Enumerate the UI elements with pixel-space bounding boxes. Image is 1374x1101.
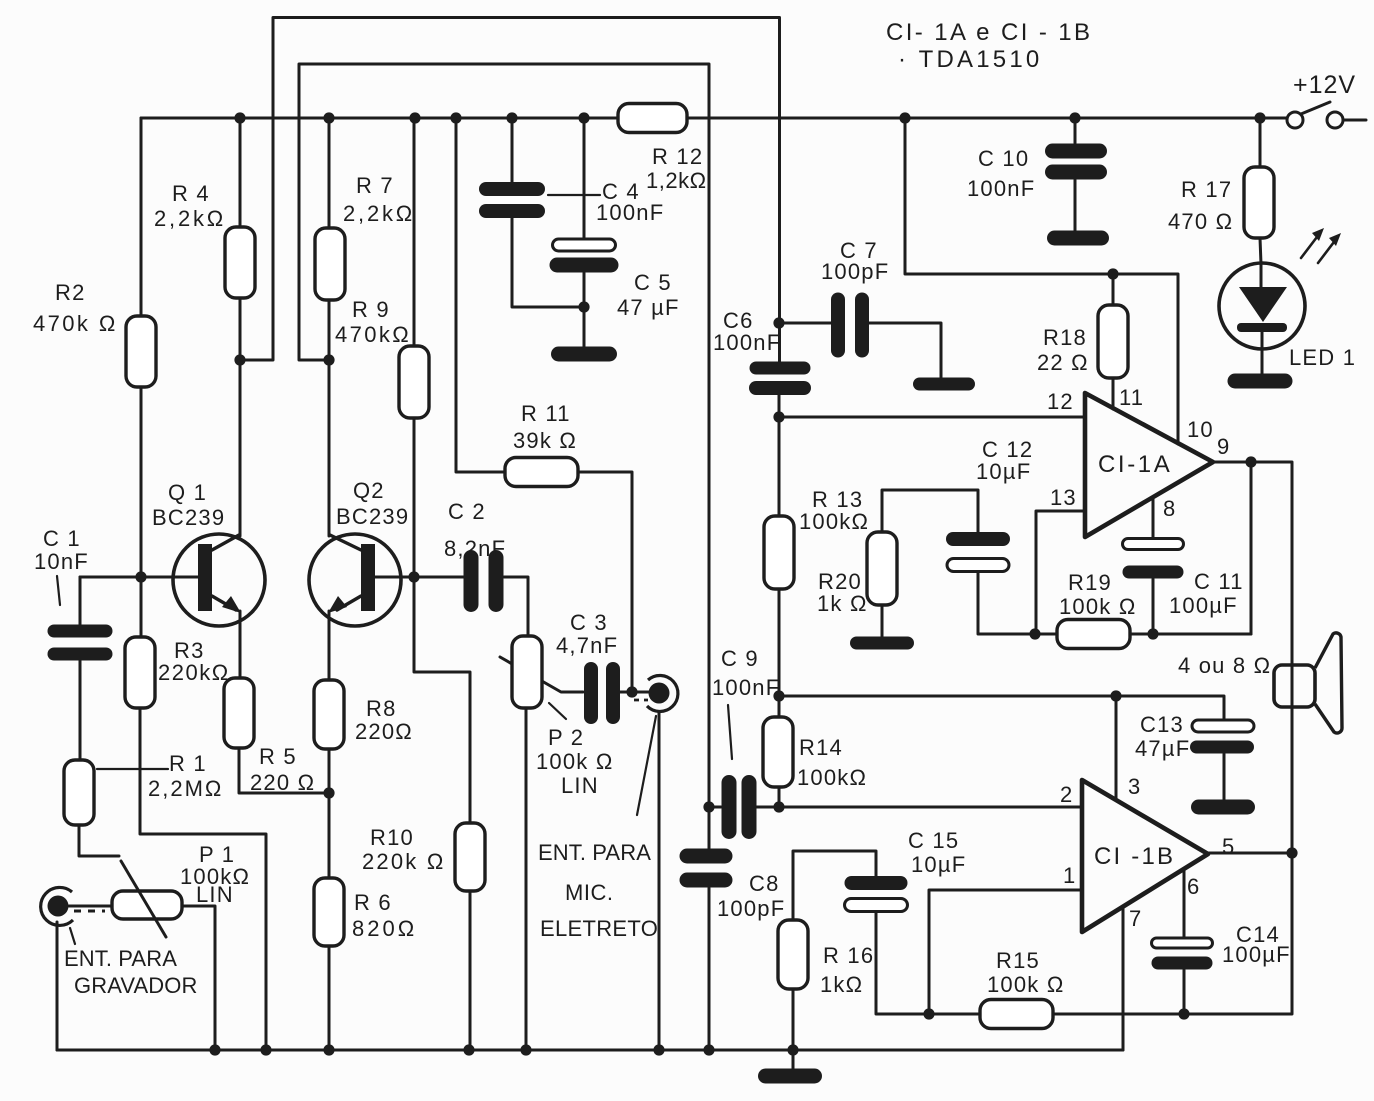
svg-text:220kΩ: 220kΩ — [158, 660, 230, 685]
wire node to C7 — [779, 322, 831, 325]
svg-text:R14: R14 — [799, 735, 843, 760]
svg-text:39k Ω: 39k Ω — [513, 428, 577, 453]
pin 10 — [1187, 417, 1214, 442]
svg-text:470k Ω: 470k Ω — [33, 311, 118, 336]
pin 6 — [1187, 874, 1200, 899]
pin 7 — [1129, 906, 1142, 931]
wire C12 bottom to node — [978, 572, 1035, 634]
svg-text:R 12: R 12 — [652, 144, 703, 169]
svg-text:R 17: R 17 — [1181, 177, 1232, 202]
svg-text:Q2: Q2 — [353, 478, 385, 503]
svg-text:ENT. PARA: ENT. PARA — [538, 840, 651, 865]
label R14 — [797, 735, 867, 790]
wire R9 top lead — [413, 118, 416, 346]
label pointer (C4) — [548, 194, 600, 196]
wire Q2 base to C2 — [414, 576, 464, 579]
wire node to ground symbol — [583, 307, 586, 348]
svg-text:C 9: C 9 — [721, 646, 759, 671]
wire Q2 collector lead — [328, 360, 331, 536]
resistor R13 — [764, 516, 794, 589]
svg-text:1k Ω: 1k Ω — [817, 591, 868, 616]
wire C4 bottom to node — [512, 218, 584, 307]
svg-text:C 2: C 2 — [448, 499, 486, 524]
resistor R8 — [314, 680, 344, 749]
wire C1 top lead — [79, 577, 82, 625]
capacitor C8 — [680, 849, 733, 888]
op-amp CI-1A — [1085, 393, 1213, 537]
label R7 — [343, 173, 415, 226]
wire C6 top segment — [778, 323, 781, 362]
wire P2 bottom to ground rail — [525, 708, 528, 1050]
wire R14 bottom to pin2 line — [778, 787, 781, 807]
svg-text:11: 11 — [1119, 385, 1144, 410]
label title CI-1A e CI-1B / TDA1510 — [886, 19, 1092, 73]
label R4 — [154, 181, 226, 231]
svg-text:12: 12 — [1047, 389, 1074, 414]
svg-text:100pF: 100pF — [717, 896, 785, 921]
svg-text:+12V: +12V — [1293, 71, 1356, 99]
wire C13 to ground symbol — [1223, 754, 1226, 800]
svg-text:P 2: P 2 — [548, 725, 584, 750]
wire R3 bottom to ground rail — [140, 708, 266, 1050]
wire Q1 base line with C1 top — [80, 576, 199, 579]
wire LED to ground symbol — [1261, 349, 1264, 375]
transistor Q1 — [173, 534, 265, 626]
svg-text:R 7: R 7 — [356, 173, 394, 198]
wire R18 bottom to pin 11 — [1112, 378, 1115, 409]
capacitor C1 — [48, 625, 113, 661]
wire pin 6 lead to C14 — [1183, 869, 1186, 938]
capacitor C6 — [749, 362, 811, 396]
jack ENT. PARA MIC. ELETRETO — [634, 675, 678, 711]
pin 2 — [1060, 782, 1073, 807]
wire R20-C12 top jog — [882, 490, 978, 532]
svg-text:C 10: C 10 — [978, 146, 1029, 171]
svg-text:C13: C13 — [1140, 712, 1184, 737]
resistor R18 — [1098, 305, 1128, 378]
svg-text:100k Ω: 100k Ω — [987, 972, 1064, 997]
potentiometer P1 — [112, 861, 182, 937]
svg-text:47µF: 47µF — [1135, 736, 1190, 761]
label R17 — [1168, 177, 1233, 234]
ground (C4/C5 node) — [551, 347, 617, 362]
resistor R15 — [980, 1000, 1053, 1029]
wire C11 bottom lead — [1152, 579, 1155, 634]
svg-text:8,2nF: 8,2nF — [444, 536, 506, 561]
svg-text:220Ω: 220Ω — [355, 719, 413, 744]
svg-text:47 µF: 47 µF — [617, 295, 680, 320]
wire C10 top lead — [1074, 118, 1077, 143]
label C9 — [712, 646, 780, 700]
wire R8 to R6 node — [328, 749, 331, 878]
resistor R2 — [126, 316, 156, 387]
label C15 — [908, 828, 966, 877]
label C13 — [1135, 712, 1190, 761]
resistor R11 — [505, 458, 578, 487]
pin 12 — [1047, 389, 1074, 414]
wire C9 to pin 2 — [756, 806, 1082, 809]
label ENT. PARA MIC. ELETRETO — [538, 840, 658, 941]
power switch — [1287, 102, 1366, 128]
svg-text:9: 9 — [1217, 434, 1230, 459]
svg-text:100nF: 100nF — [713, 330, 781, 355]
label pointer (mic jack) — [637, 716, 656, 815]
resistor R3 — [125, 637, 155, 708]
label speaker impedance — [1178, 653, 1271, 678]
wire R11 to mic node — [578, 472, 632, 692]
capacitor C3 — [584, 662, 620, 724]
capacitor C11 — [1123, 539, 1184, 579]
wire gravador jack sleeve to ground rail — [56, 922, 59, 1050]
pin 8 — [1163, 496, 1176, 521]
label LED1 — [1289, 345, 1356, 370]
svg-text:C8: C8 — [749, 871, 780, 896]
wire R7 top lead — [328, 118, 331, 228]
capacitor C7 — [831, 293, 869, 358]
svg-text:100nF: 100nF — [967, 176, 1035, 201]
label R15 — [987, 948, 1064, 997]
wire pin 3 lead — [1115, 696, 1118, 800]
svg-text:Q 1: Q 1 — [168, 480, 207, 505]
capacitor C9 — [722, 775, 757, 839]
svg-text:CI-1A: CI-1A — [1098, 451, 1172, 478]
resistor R4 — [225, 227, 255, 298]
wire pin 12 line — [779, 416, 1085, 419]
capacitor C15 — [845, 876, 908, 912]
wire bottom ground rail — [57, 1049, 1123, 1052]
label pointer (P2) — [549, 703, 566, 719]
resistor R17 — [1244, 167, 1274, 238]
wire pin 7 lead to ground rail — [1122, 907, 1125, 1050]
wire R2 top lead — [140, 118, 143, 316]
ground (C13) — [1191, 800, 1255, 815]
label R8 — [355, 696, 413, 744]
svg-text:100kΩ: 100kΩ — [797, 765, 867, 790]
label ENT. PARA GRAVADOR — [64, 946, 197, 998]
wire C5 bottom to node — [583, 273, 586, 307]
op-amp CI-1B — [1082, 780, 1208, 932]
label R20 — [817, 569, 868, 616]
svg-text:100µF: 100µF — [1222, 942, 1291, 967]
wire pin 1 line — [929, 890, 1082, 1014]
capacitor C4 — [479, 182, 545, 218]
svg-text:LED 1: LED 1 — [1289, 345, 1356, 370]
wire C6 to R13 with pin12 tap — [778, 395, 781, 516]
svg-text:10: 10 — [1187, 417, 1214, 442]
svg-text:6: 6 — [1187, 874, 1200, 899]
capacitor C2 — [464, 550, 504, 612]
wire jack to P1 — [69, 905, 112, 908]
label R16 — [820, 943, 874, 997]
svg-text:5: 5 — [1222, 834, 1235, 859]
wire R10 to ground rail — [469, 891, 472, 1050]
resistor R1 — [64, 760, 94, 825]
wire C2 to P2 top — [504, 577, 528, 636]
svg-text:4 ou 8 Ω: 4 ou 8 Ω — [1178, 653, 1271, 678]
svg-text:470 Ω: 470 Ω — [1168, 209, 1233, 234]
capacitor C5 — [550, 239, 619, 273]
label CI-1B — [1094, 843, 1175, 870]
label C10 — [967, 146, 1035, 201]
svg-text:R 1: R 1 — [169, 751, 207, 776]
svg-text:LIN: LIN — [196, 882, 234, 907]
label C12 — [976, 437, 1033, 484]
resistor R16 — [778, 920, 808, 989]
wire Q2 emitter to R8 — [328, 611, 331, 680]
svg-text:470kΩ: 470kΩ — [335, 322, 411, 347]
wire P2 wiper to C3 — [500, 657, 583, 692]
wire R13 to R14 with pin3 tap — [778, 589, 781, 717]
svg-text:3: 3 — [1128, 774, 1141, 799]
wire R9 bottom to Q2 base node — [413, 418, 416, 577]
wire Q2 base node to R10 — [414, 577, 470, 823]
svg-text:C 3: C 3 — [570, 610, 608, 635]
svg-text:GRAVADOR: GRAVADOR — [74, 973, 197, 998]
wire R11 feed from +12V — [456, 118, 505, 472]
wire output to R15/C14 feedback — [1053, 853, 1292, 1014]
label C5 — [617, 270, 680, 320]
potentiometer P2 — [512, 636, 542, 708]
resistor R20 — [867, 532, 897, 605]
resistor R12 — [618, 104, 687, 133]
resistor R6 — [314, 878, 344, 946]
svg-text:10µF: 10µF — [976, 459, 1031, 484]
svg-text:BC239: BC239 — [336, 504, 409, 529]
svg-text:ELETRETO: ELETRETO — [540, 916, 658, 941]
label pointer (R1) — [97, 768, 168, 770]
svg-text:R 11: R 11 — [521, 401, 571, 426]
wire R5 bottom to Q2 emitter node — [239, 748, 329, 793]
svg-text:7: 7 — [1129, 906, 1142, 931]
capacitor C10 — [1045, 144, 1107, 180]
label R12 — [646, 144, 707, 193]
wire R20 to ground symbol — [881, 605, 884, 638]
transistor Q2 — [309, 534, 401, 626]
svg-text:R 6: R 6 — [354, 890, 392, 915]
svg-text:100µF: 100µF — [1169, 593, 1238, 618]
svg-text:R18: R18 — [1043, 325, 1087, 350]
LED LED1 — [1219, 263, 1305, 349]
wire Q1 emitter to R5 — [239, 611, 242, 678]
label R9 — [335, 297, 411, 347]
svg-text:CI -1B: CI -1B — [1094, 843, 1175, 870]
pin 13 — [1050, 485, 1077, 510]
svg-text:BC239: BC239 — [152, 505, 225, 530]
svg-text:C 1: C 1 — [43, 526, 81, 551]
speaker 4-8 ohm — [1274, 633, 1342, 733]
capacitor C13 — [1190, 720, 1254, 754]
wire R17 top lead — [1259, 118, 1262, 167]
wire C7 to ground symbol — [869, 323, 941, 379]
svg-text:2,2MΩ: 2,2MΩ — [148, 776, 223, 801]
svg-text:R 16: R 16 — [823, 943, 874, 968]
wire pin 3 line to C13 — [779, 696, 1224, 720]
resistor R9 — [399, 346, 429, 418]
svg-text:10µF: 10µF — [911, 852, 966, 877]
wire pin 9 output line — [1213, 462, 1292, 853]
wire R18 top lead — [1112, 274, 1115, 305]
svg-text:10nF: 10nF — [34, 549, 89, 574]
resistor R19 — [1057, 620, 1130, 649]
resistor R7 — [315, 228, 345, 300]
wire R4 top lead — [239, 118, 242, 227]
svg-text:220k Ω: 220k Ω — [362, 849, 445, 874]
svg-text:R 9: R 9 — [352, 297, 390, 322]
label C3 — [556, 610, 618, 658]
ground (C10) — [1047, 231, 1109, 246]
svg-text:· TDA1510: · TDA1510 — [898, 46, 1042, 73]
label R10 — [362, 825, 445, 874]
label pointer (C1) — [57, 576, 60, 605]
svg-text:C 11: C 11 — [1194, 569, 1244, 594]
svg-text:R8: R8 — [366, 696, 397, 721]
label C8 — [717, 871, 785, 921]
wire P1 right to ground rail — [182, 906, 215, 1050]
wire R15 left lead to node — [929, 1013, 980, 1016]
svg-text:8: 8 — [1163, 496, 1176, 521]
label P2 — [536, 725, 613, 798]
wire C8 bottom lead to ground rail — [708, 888, 711, 1050]
wire C15 bottom to node — [876, 912, 929, 1014]
label P1 — [180, 842, 250, 907]
svg-text:2,2kΩ: 2,2kΩ — [154, 206, 226, 231]
label C11 — [1169, 569, 1244, 618]
svg-text:C 5: C 5 — [634, 270, 672, 295]
label R1 — [148, 751, 223, 801]
wire pin 8 lead — [1152, 497, 1155, 539]
label R2 — [33, 280, 118, 336]
svg-text:22 Ω: 22 Ω — [1037, 350, 1089, 375]
wire mic node to jack — [632, 691, 649, 694]
wire +12V rail — [141, 117, 1287, 120]
ground (LED1) — [1228, 374, 1293, 389]
label R3 — [158, 638, 230, 685]
svg-text:1kΩ: 1kΩ — [820, 972, 863, 997]
label Q1 — [152, 480, 225, 530]
label +12V — [1293, 71, 1356, 99]
wire pin 5 output line — [1208, 852, 1292, 855]
svg-text:R2: R2 — [55, 280, 86, 305]
pin 9 — [1217, 434, 1230, 459]
capacitor C12 — [946, 532, 1010, 572]
wire Q1 collector lead — [239, 360, 242, 536]
label pointer (C9) — [728, 705, 732, 759]
svg-text:R10: R10 — [370, 825, 414, 850]
svg-text:2,2kΩ: 2,2kΩ — [343, 201, 415, 226]
label C6 — [713, 308, 781, 355]
label C14 — [1222, 922, 1291, 967]
label R19 — [1059, 570, 1136, 619]
wire Q2 base line — [374, 576, 414, 579]
svg-text:R 4: R 4 — [172, 181, 210, 206]
wire R7 bottom to node — [328, 300, 331, 360]
label C2 — [444, 499, 506, 561]
LED light arrows — [1301, 228, 1341, 263]
ground (R20) — [850, 637, 914, 650]
label pointer (gravador jack) — [70, 928, 75, 944]
svg-text:100k Ω: 100k Ω — [1059, 594, 1136, 619]
wire top feedback line 2 (Q2 collector to C9/C8 chain) — [299, 64, 709, 807]
svg-text:R15: R15 — [996, 948, 1040, 973]
svg-text:220 Ω: 220 Ω — [250, 770, 315, 795]
svg-text:13: 13 — [1050, 485, 1077, 510]
wire R6 to ground rail — [328, 946, 331, 1050]
svg-text:100nF: 100nF — [596, 200, 664, 225]
label R11 — [513, 401, 577, 453]
ground (bottom rail) — [758, 1069, 822, 1084]
jack ENT. PARA GRAVADOR — [41, 887, 105, 925]
wire R4 bottom to node — [239, 298, 242, 360]
svg-text:100nF: 100nF — [712, 675, 780, 700]
svg-text:CI- 1A e CI - 1B: CI- 1A e CI - 1B — [886, 19, 1092, 46]
label CI-1A — [1098, 451, 1172, 478]
pin 5 — [1222, 834, 1235, 859]
label R5 — [250, 744, 315, 795]
pin 3 — [1128, 774, 1141, 799]
svg-text:2: 2 — [1060, 782, 1073, 807]
svg-text:C 15: C 15 — [908, 828, 959, 853]
wire pin 2 line — [709, 806, 721, 809]
label R6 — [352, 890, 417, 941]
wire output down-leg to feedback — [1250, 462, 1253, 634]
resistor R14 — [763, 717, 793, 787]
svg-text:100pF: 100pF — [821, 259, 889, 284]
ground (C7) — [913, 378, 975, 391]
svg-text:100kΩ: 100kΩ — [799, 509, 869, 534]
svg-text:1,2kΩ: 1,2kΩ — [646, 168, 707, 193]
svg-text:820Ω: 820Ω — [352, 916, 417, 941]
wire R17 to LED — [1260, 238, 1261, 264]
svg-text:1: 1 — [1063, 863, 1076, 888]
wire ground rail stem to symbol — [792, 1050, 795, 1069]
wire pin 13 line — [1036, 511, 1085, 634]
wire C4 top lead — [511, 118, 514, 182]
pin 1 — [1063, 863, 1076, 888]
wire R1 to P1 wiper — [79, 825, 119, 856]
svg-text:4,7nF: 4,7nF — [556, 633, 618, 658]
wire C5 top lead — [583, 118, 586, 239]
wire C15 top to R16 jog — [793, 851, 876, 920]
wire C10 to ground symbol — [1074, 180, 1077, 231]
wire C8 top lead — [708, 807, 711, 849]
resistor R5 — [224, 678, 254, 748]
svg-text:R 5: R 5 — [259, 744, 297, 769]
label R18 — [1037, 325, 1089, 375]
svg-text:LIN: LIN — [561, 773, 599, 798]
label C7 — [821, 238, 889, 284]
wire C3 to mic node — [620, 691, 632, 694]
wire top feedback line 1 (Q1 collector to C6 chain) — [240, 18, 780, 361]
capacitor C14 — [1152, 938, 1213, 970]
resistor R10 — [455, 823, 485, 891]
svg-text:ENT. PARA: ENT. PARA — [64, 946, 177, 971]
label C1 — [34, 526, 89, 574]
wire C14 bottom lead — [1183, 970, 1186, 1014]
label C4 — [596, 179, 664, 225]
wire R19/C11 feedback line — [1035, 633, 1251, 636]
svg-text:100k Ω: 100k Ω — [536, 749, 613, 774]
svg-text:R19: R19 — [1068, 570, 1112, 595]
svg-text:MIC.: MIC. — [565, 880, 613, 905]
wire C1 to R1 — [79, 660, 82, 760]
wire R2-R3 chain through Q1 base node — [140, 387, 143, 637]
label R13 — [799, 487, 869, 534]
wire mic jack sleeve to ground rail — [658, 712, 661, 1050]
wire rail to R18/pin10 branch — [905, 118, 1178, 444]
wire R16 to ground rail — [792, 989, 795, 1050]
label Q2 — [336, 478, 409, 529]
pin 11 — [1119, 385, 1144, 410]
